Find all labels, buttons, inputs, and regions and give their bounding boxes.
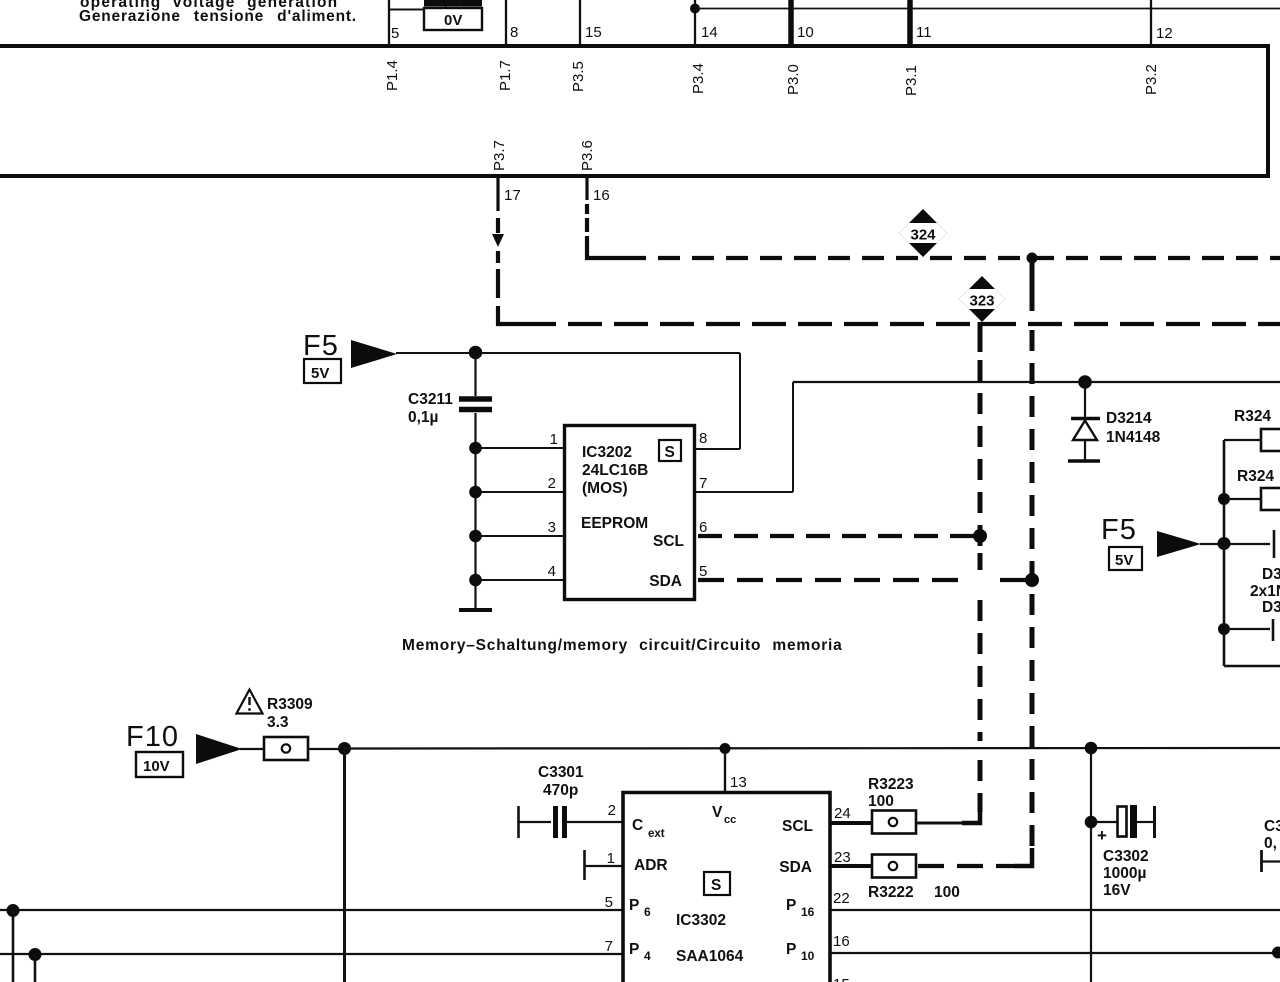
svg-text:F10: F10 <box>126 721 179 753</box>
right resistor network vertical <box>1223 440 1226 666</box>
wire pin 8 vertical <box>505 0 507 45</box>
svg-text:D3214: D3214 <box>1106 410 1152 427</box>
svg-text:P1.4: P1.4 <box>384 60 401 91</box>
diode D3214 <box>1084 382 1086 417</box>
node: junction dot pin 14 <box>690 4 700 14</box>
wire: 10V rail <box>344 747 1280 750</box>
wire: horizontal net at top <box>695 8 1280 10</box>
svg-text:100: 100 <box>868 793 894 810</box>
wire: stub to EEPROM pin1 <box>475 447 565 449</box>
wire/diode stub lower <box>1224 628 1270 630</box>
svg-text:EEPROM: EEPROM <box>581 515 648 532</box>
svg-text:C3301: C3301 <box>538 764 584 781</box>
wire pin 15 vertical <box>579 0 581 45</box>
pin 16 stub <box>585 177 588 200</box>
wire: SDA dashed to bus <box>918 864 1014 868</box>
node: F5 junction <box>1218 537 1231 550</box>
svg-text:P: P <box>786 941 796 958</box>
wire: stub to EEPROM pin2 <box>475 491 565 493</box>
resistor R3309 (fusible) <box>264 737 308 760</box>
svg-text:C3: C3 <box>1264 818 1280 835</box>
wire: EEPROM pin7 to node line <box>695 491 793 493</box>
capacitor C3302 <box>1085 742 1098 755</box>
svg-text:P: P <box>629 941 639 958</box>
svg-text:S: S <box>665 444 675 461</box>
IC3302 SAA1064 box <box>623 793 830 982</box>
svg-text:16: 16 <box>593 187 610 204</box>
svg-text:P: P <box>786 897 796 914</box>
svg-text:ext: ext <box>648 828 665 840</box>
op-amp/IC EEPROM IC3202 box <box>565 426 695 600</box>
wire pin 14 vertical <box>694 0 696 45</box>
wire: P4 line <box>0 953 623 955</box>
wire: EEPROM SDA dashed <box>698 578 962 582</box>
svg-text:5V: 5V <box>1115 552 1133 569</box>
svg-text:P3.0: P3.0 <box>785 64 802 95</box>
svg-text:(MOS): (MOS) <box>582 480 628 497</box>
wire pin 11 vertical (thick) <box>907 0 913 45</box>
wire: vertical from R3309 junction <box>343 749 346 982</box>
svg-text:1000µ: 1000µ <box>1103 865 1146 882</box>
svg-text:R3222: R3222 <box>868 884 914 901</box>
node: junction dot bus 324 / SDA vertical <box>1027 253 1038 264</box>
svg-text:IC3202: IC3202 <box>582 444 632 461</box>
wire: Vcc pin 13 <box>724 748 726 792</box>
svg-text:100: 100 <box>934 884 960 901</box>
pin 1 ADR stub <box>583 850 586 880</box>
svg-text:P3.6: P3.6 <box>579 140 596 171</box>
ground <box>474 580 476 609</box>
svg-text:Memory–Schaltung/memory circui: Memory–Schaltung/memory circuit/Circuito… <box>402 637 843 654</box>
node: junction dot R3309 <box>338 742 351 755</box>
wire: dashed bus line 324 (P3.6) <box>658 256 1280 260</box>
svg-text:323: 323 <box>969 293 994 310</box>
svg-text:R324: R324 <box>1237 468 1274 485</box>
svg-text:P1.7: P1.7 <box>497 60 514 91</box>
svg-text:R324: R324 <box>1234 408 1271 425</box>
wire: 5V rail to EEPROM pin8 <box>396 352 740 354</box>
svg-text:P3.2: P3.2 <box>1143 64 1160 95</box>
wire: dashed P3.7 down with arrow <box>496 218 500 233</box>
wire: pin5 stub to 0V box <box>389 9 424 11</box>
wire: P6 line <box>0 909 623 911</box>
svg-text:10: 10 <box>801 949 815 963</box>
svg-text:3.3: 3.3 <box>267 714 289 731</box>
svg-text:13: 13 <box>730 774 747 791</box>
svg-text:Generazione tensione d'aliment: Generazione tensione d'aliment. <box>79 8 357 25</box>
svg-text:1: 1 <box>550 431 558 448</box>
wire: dashed P3.6 down <box>585 204 589 214</box>
svg-text:10: 10 <box>797 24 814 41</box>
svg-text:324: 324 <box>910 227 936 244</box>
svg-text:4: 4 <box>548 563 556 580</box>
node: pin4 dot <box>469 574 482 587</box>
wire pin 12 vertical <box>1150 0 1152 45</box>
svg-text:1N4148: 1N4148 <box>1106 429 1161 446</box>
wire: bottom of network <box>1224 665 1280 668</box>
svg-text:22: 22 <box>833 890 850 907</box>
node: junction dot D3214 <box>1078 375 1092 389</box>
svg-text:5V: 5V <box>311 365 329 382</box>
svg-text:C: C <box>632 817 643 834</box>
svg-text:SDA: SDA <box>649 573 682 590</box>
wire: F5 to right network <box>1200 543 1224 545</box>
wire: corner P3.7 to bus <box>498 306 556 324</box>
svg-text:P3.4: P3.4 <box>690 63 707 94</box>
svg-text:C3211: C3211 <box>408 391 453 408</box>
wire: vertical dashed SDA bus (x=1032) <box>1030 258 1035 311</box>
voltage label 0V box <box>424 8 482 30</box>
svg-text:16V: 16V <box>1103 882 1131 899</box>
svg-text:C3302: C3302 <box>1103 848 1149 865</box>
svg-text:7: 7 <box>699 475 707 492</box>
svg-text:4: 4 <box>644 949 651 963</box>
svg-text:5: 5 <box>699 563 707 580</box>
wire pin 5 vertical <box>388 0 390 45</box>
svg-text:F5: F5 <box>1101 514 1137 546</box>
svg-text:15: 15 <box>833 976 850 982</box>
wire: vertical dashed SCL bus (x=980) <box>978 322 983 352</box>
svg-text:V: V <box>712 804 723 821</box>
svg-text:S: S <box>711 877 721 894</box>
capacitor C3211 <box>474 353 476 396</box>
svg-text:0V: 0V <box>444 12 462 29</box>
svg-text:cc: cc <box>724 814 736 826</box>
svg-text:3: 3 <box>548 519 556 536</box>
svg-text:ADR: ADR <box>634 857 668 874</box>
svg-text:2: 2 <box>608 802 616 819</box>
wire: stub to EEPROM pin4 <box>475 579 565 581</box>
wire: dashed bus line 323 (P3.7) <box>568 322 1280 326</box>
svg-text:8: 8 <box>510 24 518 41</box>
svg-text:2x1N: 2x1N <box>1250 583 1280 600</box>
safety symbol S (EEPROM) <box>659 440 681 461</box>
net flag diamond 323 <box>955 276 1009 322</box>
wire to junction <box>308 748 345 750</box>
svg-text:R3309: R3309 <box>267 696 313 713</box>
wire/diode stub upper <box>1224 543 1270 545</box>
svg-text:11: 11 <box>916 24 932 41</box>
svg-text:D3: D3 <box>1262 599 1280 616</box>
svg-text:1: 1 <box>607 850 615 867</box>
resistor R3240 lead <box>1224 439 1261 441</box>
safety symbol S (IC3302) <box>704 872 730 895</box>
resistor R3223 <box>872 811 916 834</box>
svg-text:2: 2 <box>548 475 556 492</box>
svg-text:12: 12 <box>1156 25 1173 42</box>
svg-text:17: 17 <box>504 187 521 204</box>
svg-text:D3: D3 <box>1262 566 1280 583</box>
node: pin3 dot <box>469 530 482 543</box>
svg-text:24: 24 <box>834 805 851 822</box>
resistor R3222 <box>872 855 916 878</box>
voltage label 4,5V (black highlighted, clipped at top) <box>424 0 482 7</box>
svg-text:15: 15 <box>585 24 602 41</box>
wire: corner P3.6 to bus <box>587 236 646 258</box>
svg-text:SDA: SDA <box>779 859 812 876</box>
svg-text:16: 16 <box>801 905 815 919</box>
svg-text:5: 5 <box>605 894 613 911</box>
node: pin1 dot <box>469 442 482 455</box>
warning triangle <box>237 690 263 714</box>
svg-text:6: 6 <box>644 905 651 919</box>
node: junction dot Vcc <box>720 743 731 754</box>
svg-text:SCL: SCL <box>653 533 684 550</box>
svg-text:IC3302: IC3302 <box>676 912 726 929</box>
svg-text:P3.7: P3.7 <box>491 140 508 171</box>
svg-text:P3.1: P3.1 <box>903 65 920 96</box>
svg-text:+: + <box>1097 826 1107 845</box>
svg-text:10V: 10V <box>143 758 170 775</box>
svg-text:23: 23 <box>834 849 851 866</box>
svg-text:P3.5: P3.5 <box>570 61 587 92</box>
svg-text:0,1µ: 0,1µ <box>408 409 438 426</box>
svg-text:R3223: R3223 <box>868 776 914 793</box>
node: pin2 dot <box>469 486 482 499</box>
svg-text:F5: F5 <box>303 330 339 362</box>
svg-text:5: 5 <box>391 25 399 42</box>
wire <box>240 748 264 750</box>
resistor R3241 lead <box>1218 493 1230 505</box>
node: junction dot C3211 top <box>469 346 483 360</box>
svg-text:14: 14 <box>701 24 718 41</box>
svg-text:470p: 470p <box>543 782 578 799</box>
svg-text:6: 6 <box>699 519 707 536</box>
svg-text:24LC16B: 24LC16B <box>582 462 648 479</box>
wire pin 10 vertical (thick) <box>788 0 794 45</box>
net flag diamond 324 <box>896 209 950 257</box>
wire: EEPROM SCL dashed <box>698 534 980 538</box>
svg-text:16: 16 <box>833 933 850 950</box>
svg-text:7: 7 <box>605 938 613 955</box>
wire: stub to EEPROM pin3 <box>475 535 565 537</box>
wire: horizontal node line y=382 <box>793 381 1280 383</box>
IC microcontroller box (edges cut off left) <box>0 44 1270 48</box>
svg-text:8: 8 <box>699 430 707 447</box>
pin 17 stub <box>496 177 499 211</box>
svg-text:0,: 0, <box>1264 835 1277 852</box>
svg-text:SCL: SCL <box>782 818 813 835</box>
svg-text:SAA1064: SAA1064 <box>676 948 744 965</box>
node: lower junction <box>1218 623 1230 635</box>
svg-text:P: P <box>629 897 639 914</box>
